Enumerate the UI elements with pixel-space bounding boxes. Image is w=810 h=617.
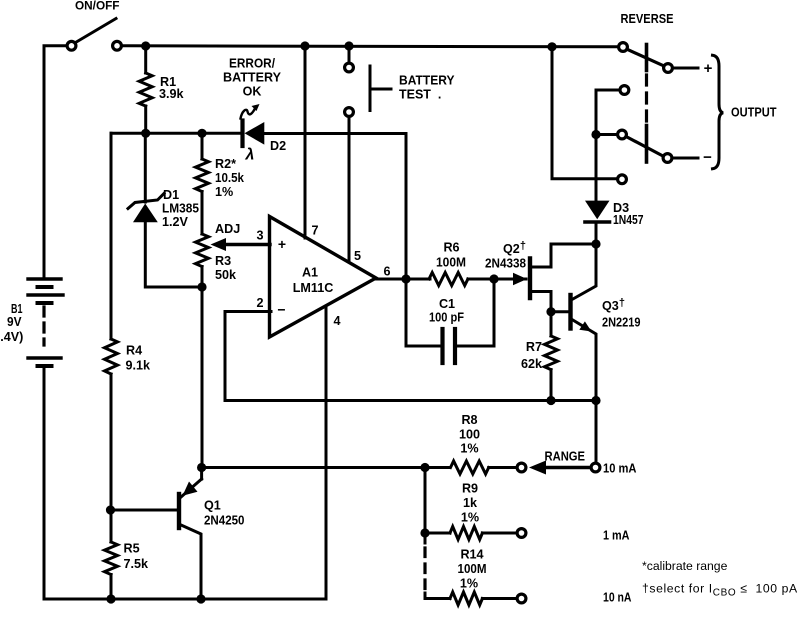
svg-text:2N4338: 2N4338 — [485, 257, 526, 271]
wire emitter node down to 10mA terminal — [595, 401, 598, 463]
transistor Q1 2N4250 — [111, 468, 202, 600]
wire left rail from switch down to battery — [44, 46, 66, 279]
wire battery negative to bottom rail — [44, 368, 326, 599]
node R7 bottom — [546, 396, 555, 405]
svg-text:R4: R4 — [126, 344, 142, 358]
node Q1 emitter top — [197, 463, 206, 472]
RANGE selector arrow — [529, 461, 600, 475]
svg-text:1%: 1% — [460, 442, 478, 456]
svg-text:R9: R9 — [462, 482, 478, 496]
svg-text:10.5k: 10.5k — [215, 171, 245, 185]
label Q2 2N4338 — [485, 240, 526, 271]
resistor R8 — [451, 461, 526, 474]
svg-text:D1: D1 — [163, 188, 179, 202]
svg-text:1%: 1% — [461, 511, 479, 525]
capacitor C1 — [406, 279, 494, 363]
wire R9 branch vertical — [424, 468, 427, 534]
wire rail down to reverse pole 4 — [552, 47, 617, 179]
label R2* 10.5k 1% — [215, 157, 245, 199]
transistor Q2 JFET 2N4338 — [494, 244, 596, 312]
svg-text:−: − — [277, 302, 285, 318]
svg-text:3: 3 — [256, 229, 263, 243]
svg-text:2N2219: 2N2219 — [602, 316, 641, 330]
switch S1 ON/OFF — [67, 19, 121, 51]
svg-text:1%: 1% — [215, 185, 233, 199]
resistor R2 — [196, 133, 209, 234]
wire op-amp output node — [374, 278, 430, 281]
label ERROR/BATTERY OK — [223, 57, 282, 99]
node Q1 collector rail — [196, 594, 205, 603]
label D3 1N457 — [613, 201, 644, 227]
wire pin 2 feedback loop — [225, 312, 596, 401]
svg-text:4: 4 — [333, 314, 340, 328]
svg-text:ERROR/: ERROR/ — [229, 57, 275, 71]
R3 wiper arrow from pin 3 — [211, 238, 271, 251]
svg-text:+: + — [278, 236, 286, 252]
node R2 top — [197, 129, 206, 138]
svg-text:100M: 100M — [458, 562, 487, 576]
node battery test at rail — [344, 41, 353, 50]
node Q2 source / Q3 base — [546, 307, 555, 316]
resistor R4 — [105, 339, 118, 542]
wire R3 bottom down to range row — [201, 287, 204, 468]
label R14 100M 1% — [458, 548, 487, 591]
svg-text:2N4250: 2N4250 — [204, 514, 245, 528]
label R8 100 1% — [459, 413, 480, 456]
label R6 100M — [436, 241, 466, 270]
label R9 1k 1% — [461, 482, 479, 525]
label C1 100 pF — [429, 297, 464, 325]
svg-text:Q1: Q1 — [204, 499, 221, 513]
node R1 bottom — [141, 129, 150, 138]
svg-text:OK: OK — [243, 85, 262, 99]
node R3 bottom / D1 anode — [197, 282, 206, 291]
node pin7 at rail — [300, 41, 309, 50]
svg-text:100: 100 — [459, 428, 480, 442]
svg-text:1 mA: 1 mA — [603, 529, 630, 543]
svg-text:R8: R8 — [461, 413, 477, 427]
node R5 bottom rail — [106, 594, 115, 603]
svg-text:10 nA: 10 nA — [603, 591, 632, 605]
node R9 branch top — [420, 463, 429, 472]
wire pin 7 to rail — [304, 46, 307, 238]
wire top positive rail — [123, 46, 619, 47]
svg-text:REVERSE: REVERSE — [621, 12, 674, 26]
wire node to row3 terminal — [596, 133, 617, 136]
svg-text:R5: R5 — [124, 542, 140, 556]
svg-text:R3: R3 — [215, 254, 231, 268]
label Q3 2N2219 — [602, 297, 641, 330]
resistor R7 — [545, 312, 558, 401]
resistor R6 — [429, 273, 494, 286]
svg-text:LM385: LM385 — [162, 202, 199, 216]
label R1 3.9k — [159, 75, 185, 101]
svg-text:1N457: 1N457 — [613, 213, 644, 227]
svg-text:BATTERY: BATTERY — [223, 71, 282, 85]
label BATTERY TEST — [399, 74, 455, 102]
label A1 LM11C — [293, 266, 334, 296]
svg-text:100M: 100M — [436, 256, 466, 270]
svg-text:1%: 1% — [460, 577, 478, 591]
label R4 9.1k — [126, 344, 152, 373]
node Q2 gate — [489, 274, 498, 283]
svg-text:A1: A1 — [302, 266, 318, 280]
node output pin 6 — [401, 274, 410, 283]
svg-text:+: + — [704, 60, 713, 77]
wire D2 anode riser to op-amp output — [405, 134, 408, 280]
resistor R1 — [139, 46, 152, 133]
svg-text:7: 7 — [311, 224, 318, 238]
label B1 9V (8.4V) — [0, 302, 23, 344]
svg-text:C1: C1 — [439, 297, 455, 311]
svg-text:7.5k: 7.5k — [124, 557, 150, 571]
svg-text:9V: 9V — [7, 315, 22, 329]
wire pin 4 to bottom rail — [325, 306, 328, 599]
label Q1 2N4250 — [204, 499, 245, 528]
label R7 62k — [521, 340, 543, 371]
potentiometer R3 — [196, 234, 209, 287]
BATTERY TEST pointer mark — [370, 66, 391, 111]
svg-text:R14: R14 — [460, 548, 483, 562]
node R9 top — [420, 528, 429, 537]
switch REVERSE (DPDT) — [618, 43, 698, 184]
node R1 top — [141, 41, 150, 50]
svg-text:1.2V: 1.2V — [162, 215, 189, 229]
svg-text:LM11C: LM11C — [293, 281, 334, 295]
LED D2 — [243, 121, 407, 147]
svg-text:ON/OFF: ON/OFF — [75, 0, 120, 13]
svg-text:TEST .: TEST . — [399, 88, 441, 102]
node reverse row3 — [591, 130, 600, 139]
zener D1 LM385 — [128, 133, 202, 287]
svg-text:−: − — [703, 149, 712, 166]
svg-text:2: 2 — [256, 296, 263, 310]
svg-text:10 mA: 10 mA — [603, 462, 637, 476]
output brace — [713, 55, 724, 169]
svg-text:3.9k: 3.9k — [159, 87, 185, 101]
svg-text:R7: R7 — [526, 340, 542, 354]
wire LED row y=133 — [111, 132, 241, 135]
svg-text:BATTERY: BATTERY — [399, 74, 455, 88]
wire range row — [202, 466, 450, 469]
label D1 LM385 1.2V — [162, 188, 199, 229]
resistor R14 — [450, 592, 526, 605]
op-amp A1 LM11C — [270, 217, 377, 338]
svg-text:62k: 62k — [521, 357, 543, 371]
svg-text:*calibrate range: *calibrate range — [642, 559, 728, 573]
svg-text:1k: 1k — [463, 496, 478, 510]
svg-text:(8.4V): (8.4V) — [0, 330, 23, 344]
node Q3 emitter bottom — [591, 396, 600, 405]
svg-text:9.1k: 9.1k — [126, 359, 152, 373]
node rail to reverse vertical — [547, 42, 556, 51]
svg-text:6: 6 — [383, 265, 390, 279]
resistor R9 — [425, 527, 526, 540]
svg-text:50k: 50k — [215, 268, 237, 282]
label R5 7.5k — [124, 542, 150, 572]
svg-text:5: 5 — [354, 249, 361, 263]
LED emission arrow — [241, 104, 260, 119]
resistor R5 — [105, 542, 118, 599]
node Q2 drain top — [591, 239, 600, 248]
transistor Q3 2N2219 — [551, 244, 596, 401]
switch BATTERY TEST — [345, 46, 354, 262]
wire left branch x=111 down — [110, 133, 113, 339]
svg-text:R2*: R2* — [215, 157, 236, 171]
svg-text:R6: R6 — [443, 241, 459, 255]
battery B1 — [28, 279, 63, 366]
node Q1 base on R4/R5 line — [106, 505, 115, 514]
wire dashed R14 branch — [424, 533, 427, 543]
svg-text:ADJ: ADJ — [215, 222, 240, 236]
wire reverse row2 to D3 vertical — [596, 90, 619, 200]
svg-text:100 pF: 100 pF — [429, 311, 464, 325]
svg-text:λ: λ — [245, 147, 255, 164]
svg-text:OUTPUT: OUTPUT — [731, 106, 777, 120]
svg-text:D2: D2 — [270, 139, 286, 153]
svg-text:B1: B1 — [11, 302, 23, 316]
label R3 50k — [215, 254, 237, 282]
diode D3 1N457 — [585, 201, 610, 244]
svg-text:RANGE: RANGE — [545, 450, 586, 464]
